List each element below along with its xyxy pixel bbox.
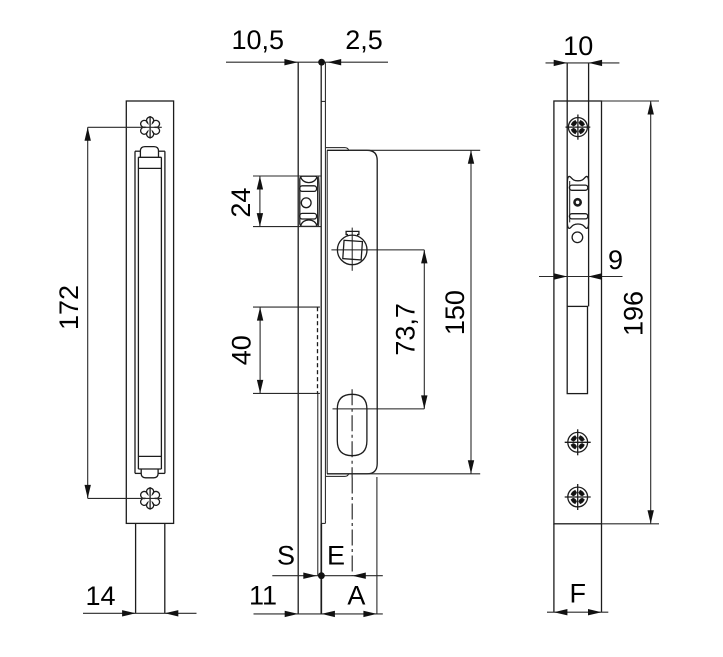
hidden edge dashed line — [317, 307, 319, 393]
left view lock body outline — [126, 101, 173, 523]
left view bottom screw rosette — [141, 487, 160, 510]
dimension F arrows — [554, 609, 568, 615]
spindle hole top notch — [346, 231, 359, 236]
dimension 24 line — [259, 176, 261, 227]
dimension 40 arrows — [257, 307, 263, 321]
right view small hole — [572, 232, 583, 243]
left view top screw rosette — [141, 116, 160, 139]
right view latch cutout inner edge — [569, 181, 571, 222]
middle faceplate right edge — [320, 62, 322, 523]
dimension 172 extension lines — [88, 126, 162, 128]
cylinder vertical centerline — [351, 389, 353, 477]
right view bolt slot — [567, 306, 587, 393]
dimension 150 extension lines — [349, 149, 481, 151]
left view bolt bottom cap — [141, 469, 158, 478]
dimension 2,5 arrow — [328, 59, 342, 65]
dimension 11 A shared arrow — [321, 611, 335, 617]
dimension 24 arrows — [257, 176, 263, 190]
middle latch top dip arc — [300, 177, 317, 183]
spindle hole square — [343, 240, 363, 260]
right view rib lines — [566, 63, 568, 307]
dimension 24 extension lines — [253, 175, 321, 177]
dimension 10 line — [546, 62, 620, 64]
svg-text:9: 9 — [608, 245, 623, 275]
dimension 10,5 arrow — [284, 59, 298, 65]
svg-text:172: 172 — [54, 285, 84, 330]
middle latch bolt outline — [300, 176, 318, 226]
svg-text:10: 10 — [563, 31, 593, 61]
middle latch lower pill — [300, 213, 317, 219]
svg-text:40: 40 — [226, 335, 256, 365]
reference dot top — [318, 59, 325, 66]
left view bolt slot right wall — [164, 151, 166, 473]
faceplate inner lip line — [317, 393, 319, 575]
cylinder hole oval — [337, 394, 367, 455]
svg-text:E: E — [327, 541, 345, 571]
lock case front edge — [326, 150, 328, 474]
right view latch screw — [575, 199, 581, 205]
right view lower extension — [553, 524, 555, 612]
svg-text:S: S — [277, 541, 295, 571]
right view latch cutout outline — [567, 176, 588, 228]
lock case top tab — [326, 148, 349, 151]
right view faceplate outline — [554, 101, 602, 524]
left view bolt bottom collar — [138, 455, 161, 457]
left view bolt slot top stubs — [135, 150, 140, 152]
dimension S E line — [272, 575, 383, 577]
dimension 14 arrows — [122, 610, 136, 616]
left view bolt bar — [137, 157, 139, 469]
dimension 40 extension lines — [253, 306, 320, 308]
dimension 196 arrows — [648, 101, 654, 115]
right view latch lower pill — [569, 214, 587, 219]
lock case bottom tab — [326, 474, 349, 477]
middle faceplate left edge — [297, 62, 299, 614]
case right edge extension — [376, 477, 378, 614]
svg-text:196: 196 — [619, 291, 649, 336]
left view bolt top cap — [140, 147, 158, 158]
dimension 10 arrows — [554, 60, 568, 66]
reference dot bottom — [318, 572, 325, 579]
cylinder centerline extension — [351, 478, 353, 576]
middle latch circle — [301, 198, 311, 208]
dimension 9 arrows — [554, 273, 568, 279]
middle cover plate line — [324, 62, 326, 521]
left view bolt top collar — [138, 156, 161, 158]
dimension 11 A line — [254, 613, 383, 615]
dimension 196 extension — [602, 523, 660, 525]
svg-text:11: 11 — [249, 581, 277, 611]
left view bolt slot left wall — [134, 151, 136, 473]
spindle vertical centerline — [351, 228, 353, 271]
svg-text:A: A — [347, 581, 365, 611]
right view latch upper pill — [569, 185, 587, 190]
dimension 14 line — [83, 612, 197, 614]
right view top screw — [566, 115, 591, 140]
left view bolt slot bottom stubs — [135, 472, 141, 474]
dimension 9 line — [539, 276, 623, 278]
svg-text:2,5: 2,5 — [345, 25, 383, 55]
dimension 172 line — [87, 127, 89, 498]
svg-text:24: 24 — [226, 188, 256, 218]
dimension 73,7 arrows — [421, 250, 427, 264]
svg-text:73,7: 73,7 — [391, 303, 421, 356]
dimension E arrow — [352, 573, 366, 579]
spindle horizontal centerline — [331, 249, 424, 251]
dimension F line — [547, 611, 608, 613]
right view middle screw — [565, 429, 591, 455]
middle latch upper pill — [300, 186, 317, 192]
dimension 150 arrows — [468, 150, 474, 164]
svg-text:F: F — [569, 578, 586, 608]
cylinder hole horizontal centerline — [333, 408, 425, 410]
right view bottom screw — [565, 484, 591, 510]
middle latch bottom dip arc — [300, 220, 317, 226]
dimension 10,5 and 2,5 line — [226, 61, 388, 63]
svg-text:10,5: 10,5 — [232, 25, 285, 55]
dimension 11 arrow left — [285, 611, 299, 617]
svg-text:150: 150 — [440, 290, 470, 335]
dimension A arrow right — [363, 611, 377, 617]
dimension 40 line — [259, 307, 261, 393]
spindle hole circle — [337, 235, 367, 265]
lock case outline — [327, 150, 377, 474]
dimension 150 line — [470, 150, 472, 474]
middle latch side curve — [318, 177, 321, 226]
dimension S arrow — [303, 573, 317, 579]
dimension 73,7 line — [423, 250, 425, 409]
svg-text:14: 14 — [85, 581, 115, 611]
dimension 172 arrows — [85, 127, 91, 141]
left view faceplate lower extension — [135, 523, 137, 613]
dimension 196 line — [650, 101, 652, 524]
